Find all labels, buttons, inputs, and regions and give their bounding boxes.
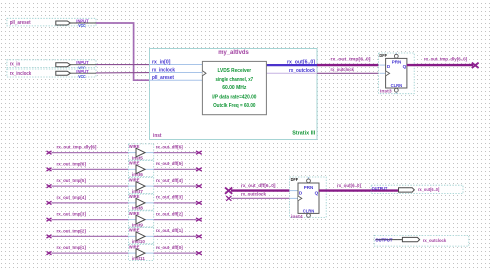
svg-text:WIRE: WIRE xyxy=(129,194,140,199)
svg-text:inst11: inst11 xyxy=(132,256,145,262)
block U1 my_altlvds (LVDS receiver megafunction) xyxy=(150,49,318,140)
wire pll_areset net xyxy=(96,23,150,80)
svg-text:rx_out[6..0]: rx_out[6..0] xyxy=(418,187,440,193)
svg-text:CLRN: CLRN xyxy=(391,83,403,88)
svg-text:DFF: DFF xyxy=(291,177,299,182)
buffer inst11 WIRE row 7: rx_out_tmp[1] -> rx_out_dff[0] xyxy=(47,244,202,261)
svg-text:rx_outclock: rx_outclock xyxy=(423,238,447,244)
svg-text:OUTPUT: OUTPUT xyxy=(375,238,392,243)
svg-text:PRN: PRN xyxy=(304,185,314,190)
svg-text:Outclk Freq = 60.00: Outclk Freq = 60.00 xyxy=(213,103,256,109)
svg-text:Q: Q xyxy=(315,191,319,196)
svg-text:inst3: inst3 xyxy=(380,88,392,94)
svg-text:WIRE: WIRE xyxy=(129,244,140,249)
no-connect X rx_outclock bottom xyxy=(226,196,231,201)
wire rx_outclock bottom xyxy=(231,197,290,199)
svg-text:rx_outclock: rx_outclock xyxy=(331,67,355,73)
svg-text:rx_out_dff[3]: rx_out_dff[3] xyxy=(156,195,183,200)
svg-text:rx_outclock: rx_outclock xyxy=(241,191,266,197)
bus rx_out_tmp[6..0] xyxy=(317,64,380,66)
buffer inst5 WIRE row 1: rx_out_tmp_dly[6] -> rx_out_dff[6] xyxy=(47,144,202,161)
input pin pll_areset xyxy=(7,18,96,28)
svg-text:pll_areset: pll_areset xyxy=(152,75,174,81)
svg-text:rx_out_tmp_dly[6..0]: rx_out_tmp_dly[6..0] xyxy=(424,57,467,63)
bus rx_out[6..0] xyxy=(319,189,399,191)
bus rx_out_dff[6..0] xyxy=(231,189,290,191)
buffer inst9 WIRE row 5: rx_out_tmp[3] -> rx_out_dff[2] xyxy=(47,211,202,228)
clock arrow marker xyxy=(202,71,206,76)
svg-text:rx_out_dff[4]: rx_out_dff[4] xyxy=(156,178,183,183)
buffer inst10 WIRE row 6: rx_out_tmp[2] -> rx_out_dff[1] xyxy=(47,228,202,245)
svg-text:Stratix III: Stratix III xyxy=(292,131,315,137)
svg-text:rx_out_dff[2]: rx_out_dff[2] xyxy=(156,211,183,216)
output pin rx_out[6..0] xyxy=(371,185,463,193)
svg-text:rx_out_tmp[5]: rx_out_tmp[5] xyxy=(57,178,87,183)
svg-text:rx_out_tmp[4]: rx_out_tmp[4] xyxy=(57,195,87,200)
svg-text:rx_out_tmp[6]: rx_out_tmp[6] xyxy=(57,161,87,166)
svg-text:rx_out_tmp_dly[6]: rx_out_tmp_dly[6] xyxy=(57,145,97,150)
no-connect X rx_out_tmp_dly xyxy=(472,63,479,68)
svg-text:rx_outclock: rx_outclock xyxy=(289,68,315,74)
svg-text:CLRN: CLRN xyxy=(303,209,315,214)
svg-text:rx_out_dff[1]: rx_out_dff[1] xyxy=(156,228,183,233)
svg-text:rx_out_tmp[3]: rx_out_tmp[3] xyxy=(57,212,87,217)
svg-text:rx_out_dff[5]: rx_out_dff[5] xyxy=(156,161,183,166)
svg-text:VCC: VCC xyxy=(78,23,86,28)
buffer inst7 WIRE row 3: rx_out_tmp[5] -> rx_out_dff[4] xyxy=(47,177,202,194)
buffer inst8 WIRE row 4: rx_out_tmp[4] -> rx_out_dff[3] xyxy=(47,194,202,211)
svg-text:WIRE: WIRE xyxy=(129,228,140,233)
svg-text:I/P data rate=420.00: I/P data rate=420.00 xyxy=(212,95,256,101)
output pin rx_outclock xyxy=(374,235,469,246)
svg-text:rx_out[6..0]: rx_out[6..0] xyxy=(337,183,361,189)
svg-text:rx_out_dff[6]: rx_out_dff[6] xyxy=(156,144,183,149)
svg-text:inst4: inst4 xyxy=(291,214,303,220)
svg-text:rx_out_dff[0]: rx_out_dff[0] xyxy=(156,245,183,250)
svg-text:rx_in: rx_in xyxy=(10,61,21,67)
svg-text:rx_inclock: rx_inclock xyxy=(10,71,32,77)
svg-text:rx_out[6..0]: rx_out[6..0] xyxy=(287,60,315,66)
svg-text:single channel, x7: single channel, x7 xyxy=(216,77,254,83)
no-connect X rx_out_dff xyxy=(225,187,232,193)
svg-text:rx_out_tmp[1]: rx_out_tmp[1] xyxy=(57,245,87,250)
svg-text:rx_in[0]: rx_in[0] xyxy=(152,59,171,65)
flip-flop U2 DFF inst3 xyxy=(379,53,415,94)
svg-text:rx_out_tmp[6..0]: rx_out_tmp[6..0] xyxy=(331,57,371,63)
svg-text:WIRE: WIRE xyxy=(129,161,140,166)
svg-text:PRN: PRN xyxy=(392,60,402,65)
flip-flop U3 DFF inst4 xyxy=(290,177,327,220)
svg-text:rx_inclock: rx_inclock xyxy=(152,67,175,73)
svg-text:OUTPUT: OUTPUT xyxy=(372,186,388,191)
svg-text:WIRE: WIRE xyxy=(129,211,140,216)
input pin rx_inclock xyxy=(7,69,96,79)
svg-text:WIRE: WIRE xyxy=(129,177,140,182)
svg-text:60.00 MHz: 60.00 MHz xyxy=(222,85,247,91)
svg-text:LVDS Receiver: LVDS Receiver xyxy=(217,68,251,74)
svg-text:my_altlvds: my_altlvds xyxy=(218,49,249,56)
wire rx_outclock top xyxy=(317,72,380,74)
svg-text:pll_areset: pll_areset xyxy=(10,20,31,26)
svg-text:VCC: VCC xyxy=(78,74,86,79)
svg-text:Q: Q xyxy=(403,64,407,69)
wire rx_in net xyxy=(96,64,150,66)
svg-text:DFF: DFF xyxy=(379,53,387,58)
inner parameter box xyxy=(202,61,266,114)
svg-text:inst: inst xyxy=(153,133,162,139)
wire rx_inclock net xyxy=(96,72,150,74)
buffer inst6 WIRE row 2: rx_out_tmp[6] -> rx_out_dff[5] xyxy=(47,161,202,178)
svg-text:WIRE: WIRE xyxy=(129,144,140,149)
svg-text:rx_out_tmp[2]: rx_out_tmp[2] xyxy=(57,228,87,233)
bus rx_out_tmp_dly[6..0] xyxy=(407,64,473,66)
input pin rx_in xyxy=(7,60,96,71)
svg-text:rx_out_dff[6..0]: rx_out_dff[6..0] xyxy=(241,183,276,189)
